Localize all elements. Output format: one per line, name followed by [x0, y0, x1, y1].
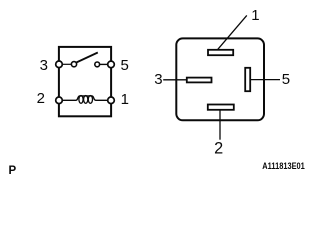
- coil L1 wires: [63, 96, 109, 100]
- svg-text:5: 5: [282, 71, 290, 88]
- terminal 1 circle: [108, 97, 115, 104]
- svg-text:2: 2: [37, 90, 45, 107]
- coil L1 loop 3: [88, 96, 92, 104]
- pin 3 slot: [187, 78, 212, 83]
- svg-text:A111813E01: A111813E01: [262, 161, 305, 172]
- leader line pin 5: [251, 79, 280, 81]
- svg-text:3: 3: [40, 57, 48, 74]
- leader line pin 1: [217, 15, 246, 49]
- svg-text:1: 1: [251, 7, 259, 24]
- coil L1 loop 2: [84, 96, 88, 104]
- svg-text:2: 2: [214, 140, 223, 158]
- switch contact right: [95, 62, 100, 67]
- coil L1 loop 1: [79, 96, 83, 104]
- leader line pin 2: [219, 110, 221, 140]
- pin 2 slot: [208, 105, 234, 110]
- svg-text:P: P: [9, 165, 17, 177]
- switch blade: [76, 53, 98, 63]
- terminal 5 circle: [108, 61, 115, 68]
- leader line pin 3: [163, 79, 186, 81]
- terminal 3 circle: [56, 61, 63, 68]
- switch contact left: [71, 62, 76, 67]
- pin 1 slot: [208, 50, 233, 55]
- relay schematic box: [59, 47, 111, 116]
- svg-text:3: 3: [154, 71, 162, 88]
- svg-text:1: 1: [121, 91, 129, 108]
- svg-text:5: 5: [121, 57, 129, 74]
- terminal 2 circle: [56, 97, 63, 104]
- pin 5 slot: [245, 68, 250, 91]
- wire movable contact to terminal 5: [100, 63, 110, 65]
- connector outline: [176, 38, 264, 120]
- wire contact 3 to movable contact: [61, 63, 72, 65]
